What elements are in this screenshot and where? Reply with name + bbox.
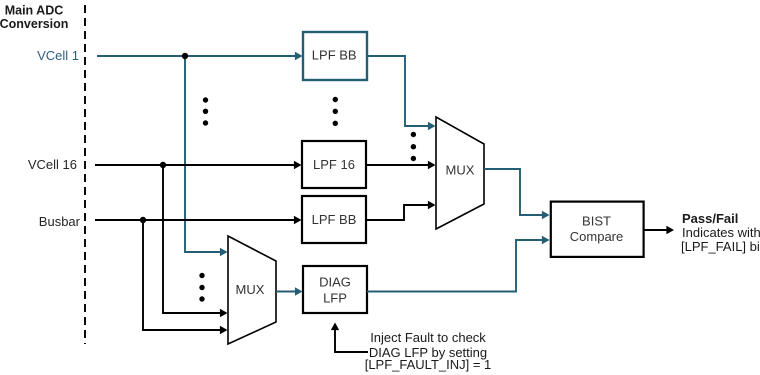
arrow into upper MUX bottom input bbox=[428, 201, 436, 209]
svg-text:LPF 16: LPF 16 bbox=[313, 157, 355, 172]
svg-text:Inject Fault to check: Inject Fault to check bbox=[370, 330, 486, 345]
ellipsis between LPF BB and LPF 16 bbox=[333, 97, 338, 126]
arrow into lower MUX top input bbox=[220, 248, 228, 256]
block DIAG LFP bbox=[303, 266, 367, 313]
block LPF BB lower bbox=[302, 196, 366, 243]
inject fault arrow bbox=[335, 329, 368, 352]
svg-text:VCell 16: VCell 16 bbox=[28, 157, 77, 172]
svg-text:[LPF_FAULT_INJ] = 1: [LPF_FAULT_INJ] = 1 bbox=[365, 357, 492, 372]
wire upper MUX to BIST (teal) bbox=[484, 169, 545, 215]
junction VCell1 bbox=[182, 53, 188, 59]
svg-text:Indicates with: Indicates with bbox=[682, 225, 760, 240]
ellipsis at lower MUX inputs bbox=[199, 273, 204, 302]
arrow into BIST input 1 bbox=[542, 211, 550, 219]
svg-text:[LPF_FAIL] bit: [LPF_FAIL] bit bbox=[681, 239, 760, 254]
arrow BIST output bbox=[666, 226, 674, 234]
svg-text:LPF BB: LPF BB bbox=[312, 212, 357, 227]
svg-text:Main ADC: Main ADC bbox=[5, 4, 64, 18]
arrow into BIST input 2 bbox=[542, 236, 550, 244]
svg-text:DIAG: DIAG bbox=[319, 275, 351, 290]
junction VCell16 bbox=[160, 162, 166, 168]
wire LPF 16 to upper MUX bbox=[366, 164, 429, 166]
wire VCell1 to LPF BB (teal) bbox=[97, 55, 295, 57]
svg-text:BIST: BIST bbox=[582, 214, 611, 229]
block LPF BB top (teal) bbox=[303, 32, 367, 80]
wire lower MUX to DIAG LFP (teal) bbox=[276, 291, 296, 293]
svg-text:Conversion: Conversion bbox=[0, 17, 68, 31]
wire VCell16 to LPF 16 (black) bbox=[95, 164, 294, 166]
arrow into LPF 16 bbox=[294, 161, 302, 169]
upper MUX bbox=[436, 117, 484, 229]
arrow into upper MUX mid input bbox=[428, 161, 436, 169]
svg-text:Busbar: Busbar bbox=[39, 214, 81, 229]
arrow into lower MUX mid input bbox=[220, 309, 228, 317]
wire LPF BB lower to upper MUX bbox=[366, 205, 429, 220]
junction Busbar bbox=[140, 217, 146, 223]
ellipsis at upper MUX inputs bbox=[411, 132, 416, 161]
arrow into LPF BB lower bbox=[294, 216, 302, 224]
svg-text:LPF BB: LPF BB bbox=[312, 48, 357, 63]
wire DIAG LFP to BIST (teal) bbox=[367, 240, 543, 292]
wire Busbar branch to lower MUX bbox=[143, 220, 222, 330]
wire BIST output bbox=[644, 229, 668, 231]
svg-text:Pass/Fail: Pass/Fail bbox=[682, 211, 738, 226]
arrowhead up into DIAG LFP bbox=[331, 323, 339, 331]
ellipsis between VCell1 and VCell16 bbox=[203, 97, 208, 125]
dashed boundary line bbox=[84, 5, 86, 344]
block LPF 16 bbox=[302, 141, 366, 188]
lower MUX bbox=[228, 236, 276, 344]
wire VCell1 branch to lower MUX (teal) bbox=[185, 56, 222, 252]
svg-text:MUX: MUX bbox=[236, 282, 265, 297]
wire VCell16 branch to lower MUX bbox=[163, 165, 222, 313]
arrow into upper MUX top input bbox=[428, 122, 436, 130]
svg-text:LFP: LFP bbox=[323, 291, 347, 306]
arrow into lower MUX bottom input bbox=[220, 326, 228, 334]
wire Busbar to LPF BB lower (black) bbox=[95, 219, 294, 221]
label Pass/Fail bbox=[681, 211, 760, 254]
svg-text:VCell 1: VCell 1 bbox=[37, 48, 79, 63]
arrow into LPF BB top bbox=[295, 52, 303, 60]
svg-text:Compare: Compare bbox=[570, 229, 623, 244]
wire LPF BB top to upper MUX (teal) bbox=[367, 56, 429, 126]
block BIST Compare bbox=[551, 202, 644, 257]
svg-text:MUX: MUX bbox=[446, 163, 475, 178]
title Main ADC Conversion bbox=[0, 4, 68, 32]
arrow into DIAG LFP bbox=[295, 287, 303, 295]
label Inject Fault note bbox=[365, 330, 492, 372]
